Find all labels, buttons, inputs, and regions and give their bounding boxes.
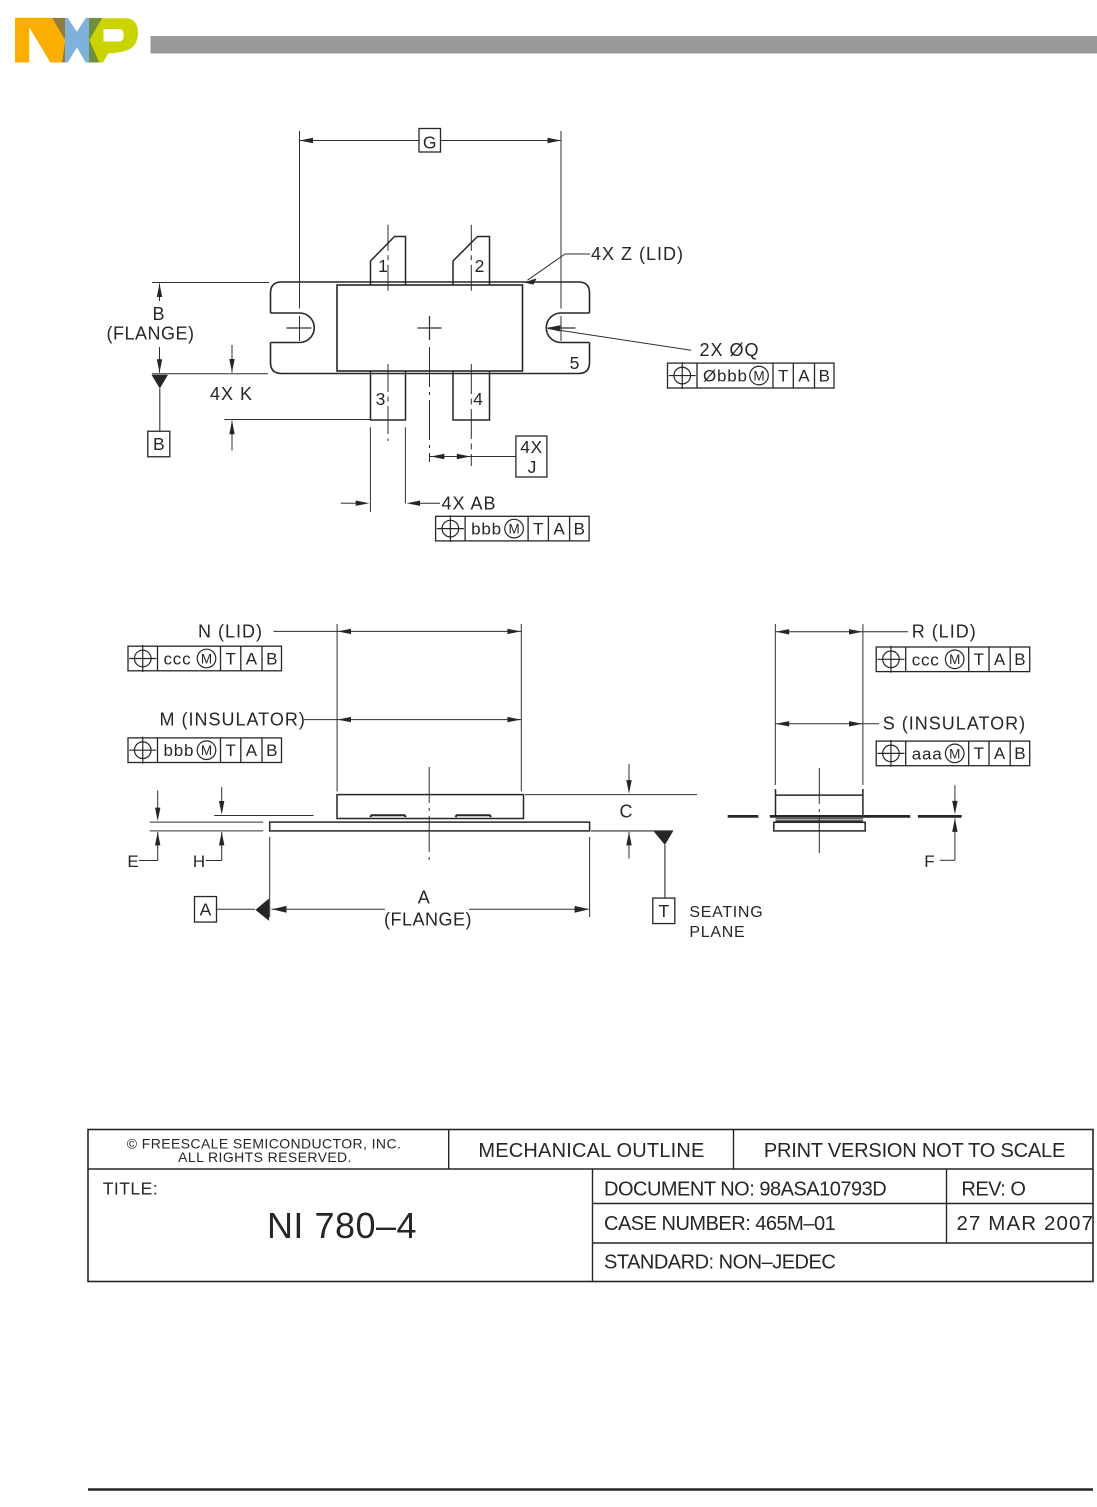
package vertical center line below xyxy=(429,347,431,462)
R (LID) dimension xyxy=(775,631,908,633)
front view lid body xyxy=(337,795,524,819)
svg-text:M: M xyxy=(201,743,212,758)
datum B feature triangle xyxy=(152,375,169,389)
svg-text:B: B xyxy=(152,304,165,324)
front view lid extension lines xyxy=(336,624,338,792)
svg-text:B: B xyxy=(153,434,165,454)
svg-text:TITLE:: TITLE: xyxy=(103,1179,159,1199)
top view package flange outline xyxy=(271,282,590,374)
svg-text:MECHANICAL OUTLINE: MECHANICAL OUTLINE xyxy=(478,1140,704,1162)
svg-text:T: T xyxy=(225,741,235,760)
end view lead line (thick) xyxy=(728,815,759,818)
svg-text:NI 780–4: NI 780–4 xyxy=(267,1205,417,1246)
svg-text:bbb: bbb xyxy=(164,741,195,760)
svg-text:bbb: bbb xyxy=(471,520,502,539)
svg-text:T: T xyxy=(658,901,669,921)
right mounting slot xyxy=(546,313,589,343)
svg-text:4X K: 4X K xyxy=(210,384,253,404)
4X AB feature control frame xyxy=(436,516,589,541)
M (INSULATOR) feature control frame xyxy=(128,738,282,763)
svg-text:N (LID): N (LID) xyxy=(198,622,263,642)
svg-text:CASE NUMBER: 465M–01: CASE NUMBER: 465M–01 xyxy=(604,1213,836,1235)
lead 4 center line xyxy=(470,364,472,466)
svg-text:M: M xyxy=(201,651,212,666)
end view insulator bottom lines xyxy=(776,818,863,820)
H reference line (lead plane, extended left) xyxy=(214,815,313,817)
F dimension arrows xyxy=(954,785,956,802)
svg-text:4X AB: 4X AB xyxy=(442,494,497,514)
left slot center cross xyxy=(287,327,312,329)
svg-text:A: A xyxy=(200,899,212,919)
S (INSULATOR) feature control frame xyxy=(876,741,1029,766)
svg-text:B: B xyxy=(266,741,277,760)
G dimension extension line right xyxy=(560,131,562,309)
svg-text:S (INSULATOR): S (INSULATOR) xyxy=(883,714,1026,734)
B (FLANGE) dimension: extension lines xyxy=(152,282,269,284)
lead 3 xyxy=(371,372,406,421)
svg-text:A: A xyxy=(798,366,810,385)
svg-text:1: 1 xyxy=(378,256,388,276)
svg-text:F: F xyxy=(924,852,934,871)
svg-text:J: J xyxy=(528,457,537,477)
A (FLANGE) dimension line and arrows xyxy=(272,908,386,910)
C dimension xyxy=(525,794,697,796)
svg-text:(FLANGE): (FLANGE) xyxy=(384,910,472,930)
svg-text:M (INSULATOR): M (INSULATOR) xyxy=(160,710,306,730)
svg-text:B: B xyxy=(819,366,830,385)
end view lid top edge xyxy=(776,794,863,796)
svg-text:DOCUMENT NO: 98ASA10793D: DOCUMENT NO: 98ASA10793D xyxy=(604,1179,886,1201)
svg-text:(FLANGE): (FLANGE) xyxy=(106,324,194,344)
front view lead edge marks xyxy=(370,815,406,817)
4X AB arrows xyxy=(341,502,356,504)
4X K dimension xyxy=(231,345,233,373)
NXP logo xyxy=(15,18,138,63)
svg-text:B: B xyxy=(1014,650,1025,669)
svg-text:H: H xyxy=(193,852,205,871)
svg-text:4X Z (LID): 4X Z (LID) xyxy=(591,244,684,264)
4X AB dimension: extension lines below lead 3 xyxy=(369,427,371,512)
2X diaQ leader xyxy=(548,329,691,351)
svg-text:A: A xyxy=(994,650,1006,669)
title block internal lines xyxy=(88,1168,1093,1170)
datum B leader and box xyxy=(159,389,161,431)
svg-text:M: M xyxy=(949,746,960,761)
4X Z (LID) leader and label xyxy=(565,253,590,255)
svg-text:ccc: ccc xyxy=(164,650,192,669)
datum A feature triangle on extension line xyxy=(255,898,269,921)
B dimension arrows xyxy=(159,284,161,302)
svg-text:27 MAR 2007: 27 MAR 2007 xyxy=(957,1212,1094,1235)
svg-text:aaa: aaa xyxy=(912,744,943,763)
svg-text:T: T xyxy=(533,519,543,538)
svg-text:Øbbb: Øbbb xyxy=(703,367,748,386)
right slot center cross xyxy=(549,327,576,329)
lead 2 center line xyxy=(470,225,472,292)
svg-text:4X: 4X xyxy=(520,437,542,457)
footer rule xyxy=(88,1488,1093,1491)
2X diaQ feature control frame xyxy=(668,363,835,388)
svg-text:T: T xyxy=(974,744,984,763)
front view center line xyxy=(428,767,430,860)
end view flange slab xyxy=(774,822,865,831)
end view extension lines xyxy=(774,624,776,785)
svg-text:R (LID): R (LID) xyxy=(912,622,977,642)
E dimension xyxy=(157,791,159,810)
lead 4 xyxy=(453,372,490,421)
4X J dimension xyxy=(430,456,516,458)
svg-text:B: B xyxy=(574,519,585,538)
package center mark cross xyxy=(418,327,442,329)
svg-text:4: 4 xyxy=(473,389,483,409)
G dimension line with arrows xyxy=(300,140,562,142)
svg-text:REV: O: REV: O xyxy=(961,1179,1025,1201)
svg-text:A: A xyxy=(994,744,1006,763)
svg-text:M: M xyxy=(949,652,960,667)
left mounting slot xyxy=(271,313,315,343)
A (FLANGE) dimension extension lines xyxy=(269,837,271,917)
front view flange slab xyxy=(270,822,590,831)
svg-text:M: M xyxy=(508,522,519,537)
lead 3 center line xyxy=(387,364,389,441)
header gray bar xyxy=(151,36,1097,54)
G dimension label box xyxy=(419,129,441,153)
svg-text:B: B xyxy=(266,649,277,668)
svg-text:A: A xyxy=(246,649,258,668)
G dimension extension line left xyxy=(299,131,301,309)
svg-text:B: B xyxy=(1014,744,1025,763)
svg-text:T: T xyxy=(974,650,984,669)
end view center line xyxy=(818,768,820,856)
svg-text:2X ØQ: 2X ØQ xyxy=(700,340,760,360)
svg-text:E: E xyxy=(127,852,138,871)
lead 1 center line xyxy=(387,225,389,292)
svg-text:T: T xyxy=(225,649,235,668)
svg-text:PRINT VERSION NOT TO SCALE: PRINT VERSION NOT TO SCALE xyxy=(764,1140,1065,1162)
svg-text:A: A xyxy=(246,741,258,760)
svg-text:SEATING: SEATING xyxy=(689,904,763,921)
N (LID) feature control frame xyxy=(128,646,282,671)
svg-text:STANDARD: NON–JEDEC: STANDARD: NON–JEDEC xyxy=(604,1252,835,1274)
svg-text:M: M xyxy=(753,368,764,383)
svg-text:2: 2 xyxy=(475,256,485,276)
R (LID) feature control frame xyxy=(876,647,1029,672)
seating plane extension line right of flange xyxy=(591,830,673,832)
datum T leader and box xyxy=(664,845,666,898)
S (INSULATOR) dimension xyxy=(775,723,879,725)
svg-text:A: A xyxy=(553,519,565,538)
seating plane datum T triangle xyxy=(654,832,673,846)
svg-text:5: 5 xyxy=(570,353,580,373)
datum A box and leader xyxy=(195,897,217,923)
title block outer frame xyxy=(88,1130,1093,1282)
end view lid body sides xyxy=(775,789,777,816)
H dimension xyxy=(221,787,223,803)
svg-text:PLANE: PLANE xyxy=(689,924,745,941)
svg-text:3: 3 xyxy=(376,389,386,409)
lid outline (top view) xyxy=(337,285,523,371)
svg-text:ccc: ccc xyxy=(912,650,940,669)
F reference line xyxy=(918,815,962,818)
E dimension extension lines xyxy=(150,821,264,823)
svg-text:ALL RIGHTS RESERVED.: ALL RIGHTS RESERVED. xyxy=(178,1149,352,1165)
svg-text:G: G xyxy=(423,133,437,153)
svg-text:T: T xyxy=(778,366,788,385)
lead 1 xyxy=(371,237,406,285)
svg-text:A: A xyxy=(418,888,431,908)
svg-text:C: C xyxy=(620,802,633,822)
lead 2 xyxy=(453,237,490,285)
